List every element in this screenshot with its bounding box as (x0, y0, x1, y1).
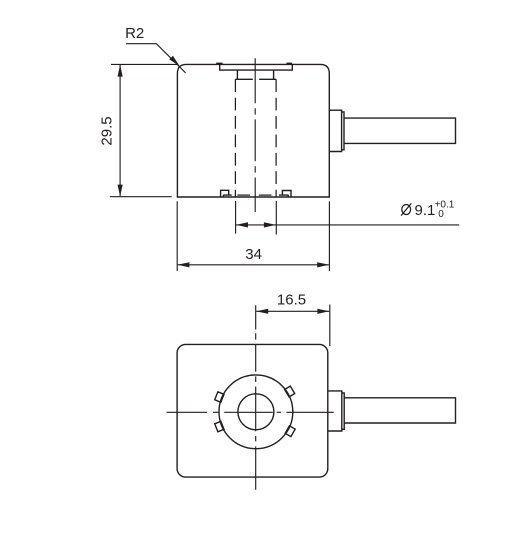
horizontal centerline (bottom view, dash-dot) (167, 411, 334, 413)
extension line bore right (275, 201, 277, 235)
arrowhead R2 (169, 56, 179, 66)
arrowhead Ø9.1 left (236, 222, 248, 227)
dimension 16.5 (256, 305, 330, 347)
dimension Ø9.1 (236, 201, 460, 235)
arrowhead 34 right (317, 262, 329, 267)
top flange plate (220, 64, 293, 70)
armature bore inner circle (238, 394, 274, 430)
flange left clip bump (216, 63, 222, 65)
arrowhead 34 left (177, 262, 189, 267)
vertical centerline (front view, dash-dot) (254, 58, 256, 212)
cable (bottom view) (344, 398, 455, 423)
extension line right (16.5) (329, 305, 331, 347)
tube step shoulder right (259, 78, 276, 80)
cable gland block (front view) (329, 110, 341, 151)
crimp tab top-left (215, 392, 224, 403)
crimp tab top-right (285, 386, 295, 397)
vertical centerline (bottom view, dash-dot) (255, 305, 257, 490)
crimp tab bottom-left (215, 421, 224, 432)
extension line bore left (235, 201, 237, 234)
arrowhead 16.5 right (317, 309, 329, 314)
svg-text:9.1: 9.1 (415, 202, 436, 219)
armature tube outer circle (219, 375, 293, 449)
tube step shoulder left (235, 78, 252, 80)
hidden tube-end line left (dashed) (237, 194, 250, 196)
arrowhead 29.5 top (118, 65, 123, 77)
dimension 29.5 (110, 64, 178, 196)
dimension line (34) (178, 264, 329, 266)
extension line top (29.5) (111, 63, 177, 65)
dimension line (29.5) (119, 65, 121, 196)
cable gland block (bottom view) (328, 391, 342, 431)
arrowhead 16.5 left (256, 309, 268, 314)
cable (front view) (344, 118, 456, 143)
extension line right (34) (328, 201, 330, 271)
cable gland flange (bottom view) (342, 393, 344, 429)
extension line left (34) (176, 201, 178, 271)
leader R2 (126, 44, 186, 73)
svg-text:34: 34 (245, 246, 262, 263)
flange right clip bump (287, 63, 293, 65)
svg-text:16.5: 16.5 (277, 292, 306, 309)
cable gland flange (front view) (342, 112, 344, 150)
dimension 34 (177, 201, 329, 271)
svg-text:R2: R2 (125, 25, 144, 42)
svg-text:0: 0 (438, 209, 444, 220)
bottom tab right (front view) (279, 191, 291, 197)
dimension/leader line (Ø9.1) (236, 224, 459, 226)
bore hidden line right (dashed) (275, 79, 277, 196)
bottom tab left (front view) (221, 190, 232, 197)
BOTTOM VIEW (177, 344, 455, 477)
svg-text:29.5: 29.5 (99, 116, 116, 145)
tube neck below flange (237, 70, 273, 79)
dimension line (16.5) (256, 310, 329, 312)
coil body outline (bottom view) (177, 344, 328, 477)
extension line bottom (29.5) (110, 196, 172, 198)
arrowhead 29.5 bottom (118, 185, 123, 197)
coil body outline (front view) (177, 64, 329, 197)
hidden tube-end line right (dashed) (259, 194, 272, 196)
crimp tab bottom-right (285, 426, 295, 437)
arrowhead Ø9.1 right (264, 222, 276, 227)
bore hidden line left (dashed) (234, 79, 236, 196)
diameter symbol Ø (401, 203, 411, 215)
